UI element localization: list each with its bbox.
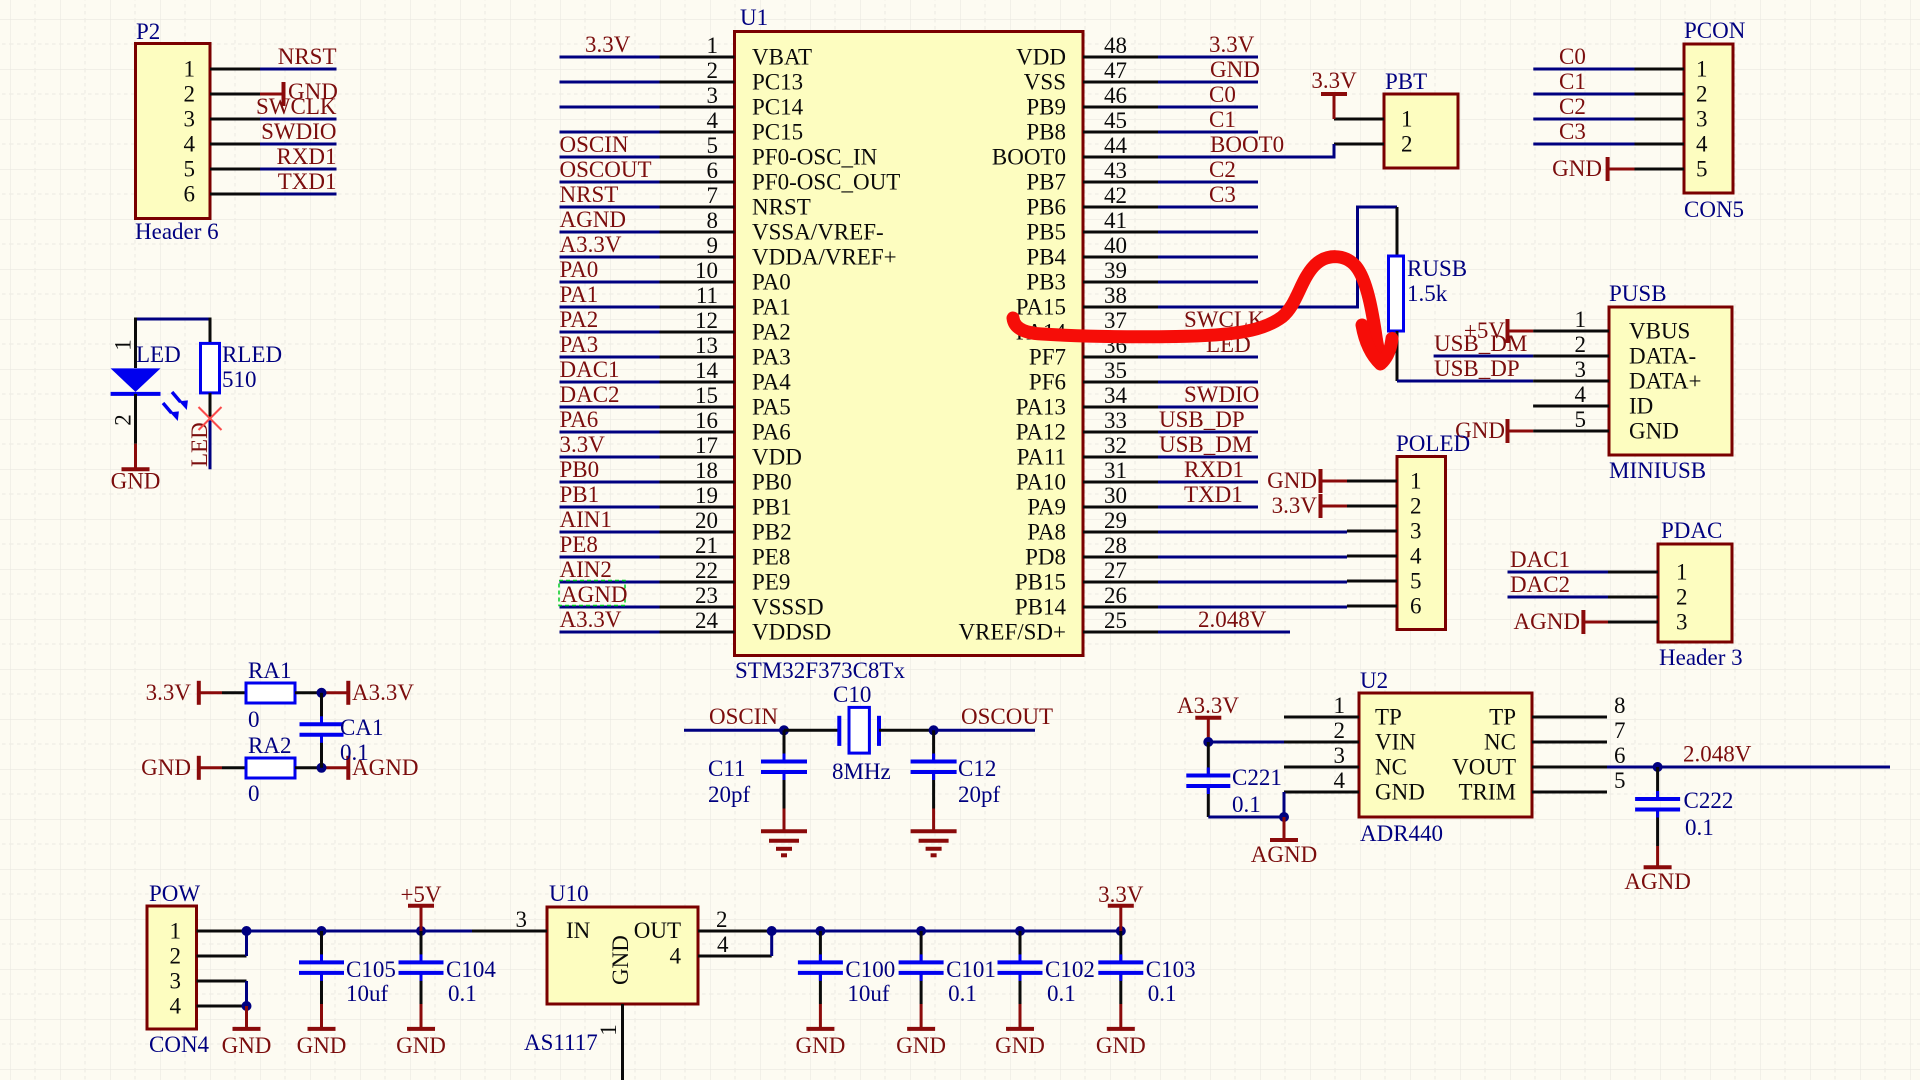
wire U1.41: [1158, 231, 1258, 234]
U1 pin 18 (PB0): [660, 458, 792, 495]
capacitor C103 0.1: [1098, 926, 1195, 1006]
wire U1.32: [1158, 432, 1258, 457]
svg-text:29: 29: [1104, 508, 1127, 533]
capacitor C222 0.1: [1635, 767, 1733, 846]
wire U1 pin 7: [560, 182, 660, 207]
svg-text:ADR440: ADR440: [1360, 821, 1443, 846]
svg-text:NC: NC: [1484, 730, 1516, 755]
PBT pin 2: [1334, 132, 1413, 157]
svg-text:CON4: CON4: [149, 1032, 210, 1057]
svg-text:2: 2: [1401, 132, 1413, 157]
U1 pin 45 (PB8): [1026, 108, 1158, 145]
svg-text:3.3V: 3.3V: [1098, 882, 1144, 907]
wire U1.26 to POLED: [1158, 606, 1347, 609]
svg-text:C11: C11: [708, 756, 746, 781]
U1 pin 4 (PC15): [660, 108, 804, 145]
svg-text:PA8: PA8: [1027, 520, 1066, 545]
wire U1 pin 8: [560, 207, 660, 232]
svg-text:GND: GND: [396, 1033, 446, 1058]
P2 pin 2: [184, 82, 261, 107]
svg-text:RXD1: RXD1: [1184, 457, 1244, 482]
svg-text:A3.3V: A3.3V: [560, 607, 622, 632]
U1 pin 11 (PA1): [660, 283, 791, 320]
svg-text:26: 26: [1104, 583, 1127, 608]
wire C1 (PCON.2): [1533, 69, 1634, 94]
POW pin 2: [170, 944, 247, 969]
U1 pin 13 (PA3): [660, 333, 791, 370]
power port AGND at PDAC.3: [1514, 609, 1608, 634]
svg-text:PA1: PA1: [752, 295, 791, 320]
wire U2.2 VIN: [1208, 741, 1284, 744]
svg-text:2.048V: 2.048V: [1198, 607, 1267, 632]
connector PBT: [1384, 69, 1458, 168]
power port GND at POLED.1: [1267, 468, 1347, 493]
U1 pin 46 (PB9): [1026, 83, 1158, 120]
capacitor C221 0.1: [1186, 742, 1282, 817]
svg-text:5: 5: [1410, 569, 1422, 594]
U1 pin 22 (PE9): [660, 558, 791, 595]
svg-text:6: 6: [1410, 594, 1422, 619]
U1 pin 48 (VDD): [1016, 33, 1158, 70]
svg-text:PC13: PC13: [752, 70, 803, 95]
svg-text:PA2: PA2: [560, 307, 599, 332]
svg-text:RLED: RLED: [222, 342, 282, 367]
wire C221 to U2.4 GND: [1208, 792, 1284, 817]
svg-text:4: 4: [1696, 132, 1708, 157]
svg-text:0.1: 0.1: [448, 981, 477, 1006]
svg-text:3: 3: [1334, 743, 1346, 768]
wire U1 pin 18: [560, 457, 660, 482]
wire C3 (PCON.4): [1533, 119, 1634, 144]
svg-text:0.1: 0.1: [340, 740, 369, 765]
U1 pin 9 (VDDA/VREF+): [660, 233, 897, 270]
wire U1 pin 13: [560, 332, 660, 357]
wire U1.46: [1158, 82, 1258, 107]
svg-text:C1: C1: [1209, 107, 1236, 132]
svg-text:PCON: PCON: [1684, 18, 1746, 43]
resistor RA1 0: [222, 658, 322, 732]
svg-text:SWDIO: SWDIO: [261, 119, 336, 144]
U1 pin 10 (PA0): [660, 258, 791, 295]
svg-text:VIN: VIN: [1375, 730, 1416, 755]
svg-text:5: 5: [707, 133, 719, 158]
wire OSCOUT: [934, 704, 1053, 730]
svg-text:VREF/SD+: VREF/SD+: [958, 620, 1066, 645]
svg-text:GND: GND: [896, 1033, 946, 1058]
connector POLED: [1396, 431, 1470, 630]
svg-text:PB9: PB9: [1026, 95, 1066, 120]
svg-text:3.3V: 3.3V: [1209, 32, 1255, 57]
svg-text:7: 7: [707, 183, 719, 208]
svg-text:PE8: PE8: [560, 532, 598, 557]
wire U1.40: [1158, 256, 1258, 259]
U1 pin 5 (PF0-OSC_IN): [660, 133, 878, 170]
wire U1 pin 20: [560, 507, 660, 532]
svg-text:PC15: PC15: [752, 120, 803, 145]
wire U1.27 to POLED: [1158, 581, 1347, 584]
svg-text:PDAC: PDAC: [1661, 518, 1722, 543]
svg-text:GND: GND: [1096, 1033, 1146, 1058]
wire RXD1 (P2.5): [260, 144, 337, 169]
svg-text:PA13: PA13: [1016, 395, 1066, 420]
U1 pin 21 (PE8): [660, 533, 791, 570]
svg-text:38: 38: [1104, 283, 1127, 308]
node RA1/CA1 junction: [317, 688, 327, 698]
POLED pin 4: [1347, 544, 1422, 569]
wire 3.3V rail (U10 to C103): [772, 930, 1121, 933]
svg-text:24: 24: [695, 608, 719, 633]
svg-text:IN: IN: [566, 918, 591, 943]
resistor RA2 0: [222, 733, 322, 806]
wire U1.34: [1158, 382, 1259, 407]
svg-text:POLED: POLED: [1396, 431, 1470, 456]
ground GND at LED cathode: [111, 444, 161, 494]
svg-text:2: 2: [1575, 332, 1587, 357]
connector PUSB MINIUSB: [1609, 281, 1732, 483]
svg-text:NC: NC: [1375, 755, 1407, 780]
svg-text:4: 4: [1410, 544, 1422, 569]
capacitor C104 0.1: [399, 926, 497, 1006]
U10 pin 3 (IN): [472, 907, 547, 932]
svg-text:VDDA/VREF+: VDDA/VREF+: [752, 245, 897, 270]
crystal C10 8MHz: [784, 682, 934, 784]
svg-text:PB4: PB4: [1026, 245, 1066, 270]
svg-text:23: 23: [695, 583, 718, 608]
svg-text:C101: C101: [946, 957, 996, 982]
P2 pin 3: [184, 107, 261, 132]
capacitor C102 0.1: [998, 926, 1095, 1006]
svg-text:C104: C104: [446, 957, 496, 982]
svg-text:3.3V: 3.3V: [560, 432, 606, 457]
power port 3.3V at POLED.2: [1272, 493, 1347, 518]
svg-text:AIN1: AIN1: [560, 507, 612, 532]
U1 pin 29 (PA8): [1027, 508, 1158, 545]
svg-text:OSCOUT: OSCOUT: [961, 704, 1053, 729]
svg-text:4: 4: [707, 108, 719, 133]
wire U1 pin 6: [560, 157, 660, 182]
svg-text:AIN2: AIN2: [560, 557, 612, 582]
svg-text:C221: C221: [1232, 765, 1282, 790]
connector PCON CON5: [1684, 18, 1746, 222]
svg-text:2: 2: [1334, 718, 1346, 743]
PDAC pin 1: [1608, 560, 1688, 585]
svg-text:PE9: PE9: [752, 570, 790, 595]
svg-text:10uf: 10uf: [346, 981, 389, 1006]
PCON pin 1: [1635, 57, 1708, 82]
U2 pin 5 (TRIM): [1459, 768, 1626, 805]
node OSCIN junction: [779, 725, 789, 735]
svg-text:6: 6: [184, 182, 196, 207]
wire U1 pin 5: [560, 132, 660, 157]
svg-text:42: 42: [1104, 183, 1127, 208]
power port +5V: [400, 882, 441, 931]
svg-text:AGND: AGND: [1251, 842, 1317, 867]
U1 pin 35 (PF6): [1029, 358, 1158, 395]
wire U1.39: [1158, 281, 1258, 284]
U1 pin 15 (PA5): [660, 383, 791, 420]
connector PDAC Header 3: [1658, 518, 1743, 670]
svg-text:5: 5: [1696, 157, 1708, 182]
svg-text:2: 2: [707, 58, 719, 83]
wire U1 pin 21: [560, 532, 660, 557]
U1 pin 40 (PB4): [1026, 233, 1158, 270]
ground GND at C102: [995, 1004, 1045, 1058]
svg-text:BOOT0: BOOT0: [1210, 132, 1284, 157]
wire net LED below RLED: [187, 419, 212, 469]
svg-text:GND: GND: [222, 1033, 272, 1058]
svg-text:VDDSD: VDDSD: [752, 620, 831, 645]
U10 pin 4: [698, 932, 772, 957]
POLED pin 5: [1347, 569, 1422, 594]
node RA2/CA1 junction: [317, 763, 327, 773]
svg-text:DAC1: DAC1: [560, 357, 620, 382]
PCON pin 4: [1635, 132, 1709, 157]
node U10 OUT junction: [767, 926, 777, 936]
wire TXD1 (P2.6): [260, 169, 337, 194]
U1 pin 32 (PA11): [1017, 433, 1158, 470]
svg-text:OSCOUT: OSCOUT: [560, 157, 652, 182]
wire U1 pin 24: [560, 607, 660, 632]
svg-text:C3: C3: [1559, 119, 1586, 144]
svg-text:8MHz: 8MHz: [832, 759, 891, 784]
svg-text:C2: C2: [1559, 94, 1586, 119]
svg-text:2: 2: [1696, 82, 1708, 107]
PUSB pin 1 (VBUS): [1533, 307, 1690, 344]
svg-text:PB0: PB0: [560, 457, 600, 482]
U1 pin 23 (VSSSD): [660, 583, 824, 620]
svg-text:PA10: PA10: [1016, 470, 1066, 495]
connector P2 Header 6: [135, 19, 219, 244]
svg-text:GND: GND: [141, 755, 191, 780]
svg-text:GND: GND: [1629, 419, 1679, 444]
svg-text:C0: C0: [1559, 44, 1586, 69]
svg-text:GND: GND: [297, 1033, 347, 1058]
svg-text:GND: GND: [608, 935, 633, 985]
svg-text:CON5: CON5: [1684, 197, 1744, 222]
wire C2 (PCON.3): [1533, 94, 1634, 119]
svg-text:20pf: 20pf: [708, 782, 751, 807]
svg-text:GND: GND: [1267, 468, 1317, 493]
svg-text:43: 43: [1104, 158, 1127, 183]
svg-text:DATA+: DATA+: [1629, 369, 1701, 394]
svg-text:PC14: PC14: [752, 95, 804, 120]
U2 pin 8 (TP): [1489, 693, 1625, 730]
svg-text:GND: GND: [995, 1033, 1045, 1058]
power port AGND at RA2: [322, 755, 419, 780]
wire U1 pin 9: [560, 232, 660, 257]
ground GND at C100: [795, 1004, 845, 1058]
ground AGND at C222: [1624, 846, 1690, 894]
svg-text:GND: GND: [1375, 780, 1425, 805]
capacitor C101 0.1: [899, 926, 996, 1006]
svg-text:PF0-OSC_OUT: PF0-OSC_OUT: [752, 170, 900, 195]
svg-text:44: 44: [1104, 133, 1128, 158]
svg-text:OSCIN: OSCIN: [709, 704, 778, 729]
wire DAC1 (PDAC.1): [1508, 547, 1609, 572]
svg-text:POW: POW: [149, 881, 200, 906]
node A3.3V/C221 junction: [1203, 737, 1213, 747]
svg-text:3: 3: [1575, 357, 1587, 382]
svg-text:NRST: NRST: [752, 195, 811, 220]
U2 pin 6 (VOUT): [1452, 743, 1625, 780]
svg-text:14: 14: [695, 358, 719, 383]
svg-text:33: 33: [1104, 408, 1127, 433]
svg-text:3: 3: [516, 907, 528, 932]
svg-text:35: 35: [1104, 358, 1127, 383]
svg-text:25: 25: [1104, 608, 1127, 633]
svg-text:45: 45: [1104, 108, 1127, 133]
svg-text:6: 6: [1614, 743, 1626, 768]
U1 pin 17 (VDD): [660, 433, 802, 470]
wire 2.048V (U2.6 VOUT): [1607, 742, 1890, 768]
svg-text:PD8: PD8: [1025, 545, 1066, 570]
svg-text:PA3: PA3: [752, 345, 791, 370]
svg-text:PA6: PA6: [560, 407, 599, 432]
svg-text:5: 5: [1614, 768, 1626, 793]
power port GND at PCON.5: [1552, 156, 1634, 181]
wire U1.30: [1158, 482, 1258, 507]
svg-text:P2: P2: [136, 19, 160, 44]
svg-text:1.5k: 1.5k: [1407, 281, 1448, 306]
svg-text:VOUT: VOUT: [1452, 755, 1516, 780]
POW pin 3: [170, 969, 247, 994]
svg-text:46: 46: [1104, 83, 1127, 108]
U1 pin 20 (PB2): [660, 508, 792, 545]
svg-text:1: 1: [596, 1024, 621, 1036]
power port 3.3V at RA1: [146, 680, 222, 705]
svg-text:VSS: VSS: [1024, 70, 1066, 95]
svg-text:10uf: 10uf: [847, 981, 890, 1006]
svg-text:1: 1: [170, 919, 182, 944]
svg-text:DAC2: DAC2: [560, 382, 620, 407]
svg-text:12: 12: [695, 308, 718, 333]
U1 pin 8 (VSSA/VREF-): [660, 208, 884, 245]
svg-text:48: 48: [1104, 33, 1127, 58]
svg-text:Header 3: Header 3: [1659, 645, 1743, 670]
U1 pin 1 (VBAT): [660, 33, 813, 70]
svg-text:VSSSD: VSSSD: [752, 595, 824, 620]
PUSB pin 3 (DATA+): [1533, 357, 1701, 394]
svg-text:PA6: PA6: [752, 420, 791, 445]
svg-text:PA9: PA9: [1027, 495, 1066, 520]
svg-text:A3.3V: A3.3V: [352, 680, 414, 705]
svg-text:37: 37: [1104, 308, 1127, 333]
U1 pin 41 (PB5): [1026, 208, 1158, 245]
svg-text:TP: TP: [1375, 705, 1402, 730]
POLED pin 6: [1347, 594, 1422, 619]
svg-text:PB2: PB2: [752, 520, 792, 545]
svg-text:C100: C100: [845, 957, 895, 982]
wire U1.42: [1158, 182, 1258, 207]
svg-text:20pf: 20pf: [958, 782, 1001, 807]
svg-text:USB_DP: USB_DP: [1159, 407, 1245, 432]
PUSB pin 5 (GND): [1533, 407, 1679, 444]
U1 pin 25 (VREF/SD+): [958, 608, 1158, 645]
wire U1 pin 11: [560, 282, 660, 307]
svg-text:32: 32: [1104, 433, 1127, 458]
capacitor C105 10uf: [299, 926, 396, 1006]
ground AGND at U2.4: [1251, 817, 1317, 867]
svg-text:3: 3: [1696, 107, 1708, 132]
U1 pin 3 (PC14): [660, 83, 804, 120]
svg-text:0.1: 0.1: [1685, 815, 1714, 840]
U2 pin 7 (NC): [1484, 718, 1625, 755]
svg-text:U10: U10: [549, 881, 589, 906]
PCON pin 2: [1635, 82, 1708, 107]
svg-text:VBUS: VBUS: [1629, 319, 1690, 344]
svg-text:TP: TP: [1489, 705, 1516, 730]
svg-text:21: 21: [695, 533, 718, 558]
P2 pin 6: [184, 182, 261, 207]
svg-text:U2: U2: [1360, 668, 1388, 693]
U1 pin 16 (PA6): [660, 408, 791, 445]
svg-text:USB_DM: USB_DM: [1434, 331, 1527, 356]
svg-text:13: 13: [695, 333, 718, 358]
svg-text:0.1: 0.1: [1232, 792, 1261, 817]
svg-text:AGND: AGND: [1514, 609, 1580, 634]
U1 pin 43 (PB7): [1026, 158, 1158, 195]
ground GND at C105: [297, 1004, 347, 1058]
capacitor C11 20pf: [708, 730, 807, 808]
wire U1 pin 1: [560, 32, 660, 57]
wire U1 pin 2: [560, 81, 660, 84]
svg-text:PA4: PA4: [752, 370, 791, 395]
svg-text:C10: C10: [833, 682, 871, 707]
svg-text:0.1: 0.1: [1148, 981, 1177, 1006]
resistor RLED 510: [201, 318, 283, 418]
svg-text:VDD: VDD: [752, 445, 802, 470]
U1 pin 19 (PB1): [660, 483, 792, 520]
U1 pin 28 (PD8): [1025, 533, 1158, 570]
U1 pin 44 (BOOT0): [992, 133, 1158, 170]
LED D? (designator LED): [111, 339, 181, 444]
earth ground at C12: [911, 809, 957, 856]
svg-text:PA2: PA2: [752, 320, 791, 345]
svg-text:39: 39: [1104, 258, 1127, 283]
svg-text:RA1: RA1: [248, 658, 291, 683]
U1 pin 33 (PA12): [1016, 408, 1158, 445]
svg-text:2: 2: [184, 82, 196, 107]
wire NRST (P2.1): [260, 44, 337, 69]
svg-text:OSCIN: OSCIN: [560, 132, 629, 157]
svg-text:510: 510: [222, 367, 257, 392]
svg-text:8: 8: [1614, 693, 1626, 718]
svg-text:SWCLK: SWCLK: [256, 94, 337, 119]
PDAC pin 2: [1608, 585, 1688, 610]
P2 pin 5: [184, 157, 261, 182]
power port +5V at PUSB.1: [1464, 318, 1533, 343]
power port GND at RA2: [141, 755, 222, 780]
svg-text:3.3V: 3.3V: [585, 32, 631, 57]
svg-text:31: 31: [1104, 458, 1127, 483]
svg-text:TXD1: TXD1: [1184, 482, 1243, 507]
hand-drawn red marker arrow: [1013, 257, 1392, 364]
svg-text:PB0: PB0: [752, 470, 792, 495]
P2 pin 1: [184, 57, 261, 82]
svg-text:4: 4: [170, 994, 182, 1019]
svg-text:RA2: RA2: [248, 733, 291, 758]
svg-text:11: 11: [696, 283, 718, 308]
U10 pin 1 (GND) down wire: [596, 1004, 623, 1080]
wire U10.4 riser: [770, 931, 773, 956]
svg-text:NRST: NRST: [560, 182, 619, 207]
wire C0 (PCON.1): [1533, 44, 1634, 69]
U1 pin 31 (PA10): [1016, 458, 1158, 495]
svg-text:0: 0: [248, 781, 260, 806]
POW pin 1: [170, 919, 247, 944]
wire USB_DP from RUSB to PUSB.3: [1397, 356, 1533, 381]
P2 pin 4: [184, 132, 261, 157]
